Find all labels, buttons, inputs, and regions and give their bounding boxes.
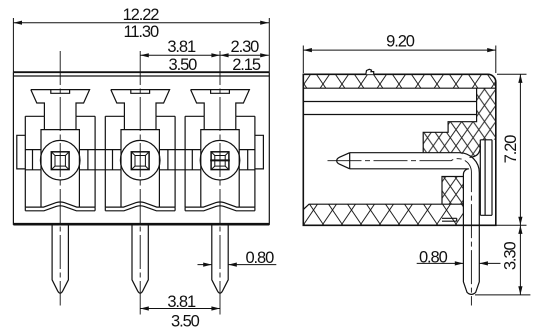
wire clamp circle unit 3 <box>200 140 240 180</box>
side view: slot lines <box>303 88 476 114</box>
pocket dividers unit 3 <box>192 150 247 170</box>
housing block unit 2 <box>105 116 175 207</box>
svg-text:12.22: 12.22 <box>123 6 160 24</box>
screw socket unit 2 <box>131 152 149 170</box>
side view: pin centerline <box>328 159 472 306</box>
svg-text:3.50: 3.50 <box>171 312 200 330</box>
tower notch unit 2 <box>131 90 150 94</box>
arrowheads <box>13 21 22 25</box>
dim 3.81/3.50 bottom <box>140 308 220 310</box>
side view: top latch bump <box>366 69 374 74</box>
dim 9.20 <box>303 46 496 74</box>
svg-text:3.81: 3.81 <box>167 293 196 311</box>
solder pin unit 2 <box>132 224 148 293</box>
side view: foot notch <box>442 218 457 221</box>
svg-text:7.20: 7.20 <box>502 135 520 164</box>
side view: hatch fillet boundary <box>470 146 481 157</box>
pin tower unit 1 <box>31 90 90 117</box>
side view: horizontal pin <box>350 153 480 295</box>
housing block unit 3 <box>185 116 255 207</box>
centerline unit 3 <box>219 51 221 315</box>
left view: connector body top strip <box>13 71 269 73</box>
pin tower unit 2 <box>111 90 170 117</box>
contact cavity unit 2 <box>121 130 159 208</box>
dim 0.80 left <box>198 264 277 266</box>
side view: top band bottom line <box>303 87 496 89</box>
left view: body right edge <box>268 72 270 225</box>
side pocket lines unit 3 <box>185 150 255 170</box>
screw socket unit 1 <box>51 152 69 170</box>
screw slot bar unit 3 <box>210 159 230 161</box>
side view: staircase hatch boundary <box>423 115 476 153</box>
svg-text:11.30: 11.30 <box>124 23 159 41</box>
contact cavity unit 1 <box>41 130 79 208</box>
pocket dividers unit 2 <box>113 150 168 170</box>
gap web lines between units <box>95 150 185 170</box>
svg-text:3.81: 3.81 <box>167 38 196 56</box>
side pocket lines unit 1 <box>25 150 95 170</box>
wire clamp circle unit 1 <box>40 140 80 180</box>
side view: body outline <box>303 74 496 225</box>
svg-text:3.50: 3.50 <box>169 56 198 74</box>
side view: flange rib <box>480 140 492 216</box>
spring wave unit 1 <box>25 202 95 207</box>
dim 12.22/11.30 <box>13 18 269 72</box>
shoulder lines unit 2 <box>105 115 175 117</box>
side view: pin nose <box>337 153 350 169</box>
spring wave unit 3 <box>185 202 255 207</box>
centerline unit 2 <box>139 51 141 315</box>
neck walls unit 1 <box>44 116 76 129</box>
left view: body bottom <box>13 223 269 226</box>
tower notch unit 1 <box>51 90 70 94</box>
side view: hatch right mass <box>423 88 496 157</box>
side pocket lines unit 2 <box>105 150 175 170</box>
screw socket unit 3 <box>211 152 229 170</box>
side view: cavity bottom / hatch band top <box>303 204 463 209</box>
svg-text:9.20: 9.20 <box>386 33 415 51</box>
contact cavity unit 3 <box>201 130 239 208</box>
svg-text:2.15: 2.15 <box>232 56 261 74</box>
svg-text:3.30: 3.30 <box>501 242 519 271</box>
left view: body left edge <box>12 72 14 225</box>
solder pin unit 3 <box>212 224 228 293</box>
shoulder lines unit 1 <box>25 115 95 117</box>
centerline unit 1 <box>59 51 61 306</box>
svg-text:2.30: 2.30 <box>231 38 260 56</box>
dim 7.20 / 3.30 <box>475 74 530 295</box>
left outer tab <box>17 135 26 169</box>
svg-text:0.80: 0.80 <box>245 249 274 267</box>
neck walls unit 2 <box>124 116 156 129</box>
solder pin unit 1 <box>52 224 68 293</box>
housing block unit 1 <box>25 116 95 207</box>
side view: hatch lower block <box>442 177 463 205</box>
shoulder lines unit 3 <box>185 115 255 117</box>
dim 0.80 right <box>417 262 501 264</box>
side view: hatch bottom band <box>303 204 463 225</box>
dim 3.81/2.30 line <box>140 54 269 56</box>
right outer tab <box>255 135 264 169</box>
side view: lower hatch block outline <box>442 177 463 205</box>
spring wave unit 2 <box>105 202 175 207</box>
tower notch unit 3 <box>211 90 230 94</box>
wire clamp circle unit 2 <box>120 140 160 180</box>
pin tower unit 3 <box>191 90 250 117</box>
svg-text:0.80: 0.80 <box>419 248 448 266</box>
pocket dividers unit 1 <box>33 150 88 170</box>
side view: hatch top band <box>303 74 496 88</box>
neck walls unit 3 <box>204 116 236 129</box>
